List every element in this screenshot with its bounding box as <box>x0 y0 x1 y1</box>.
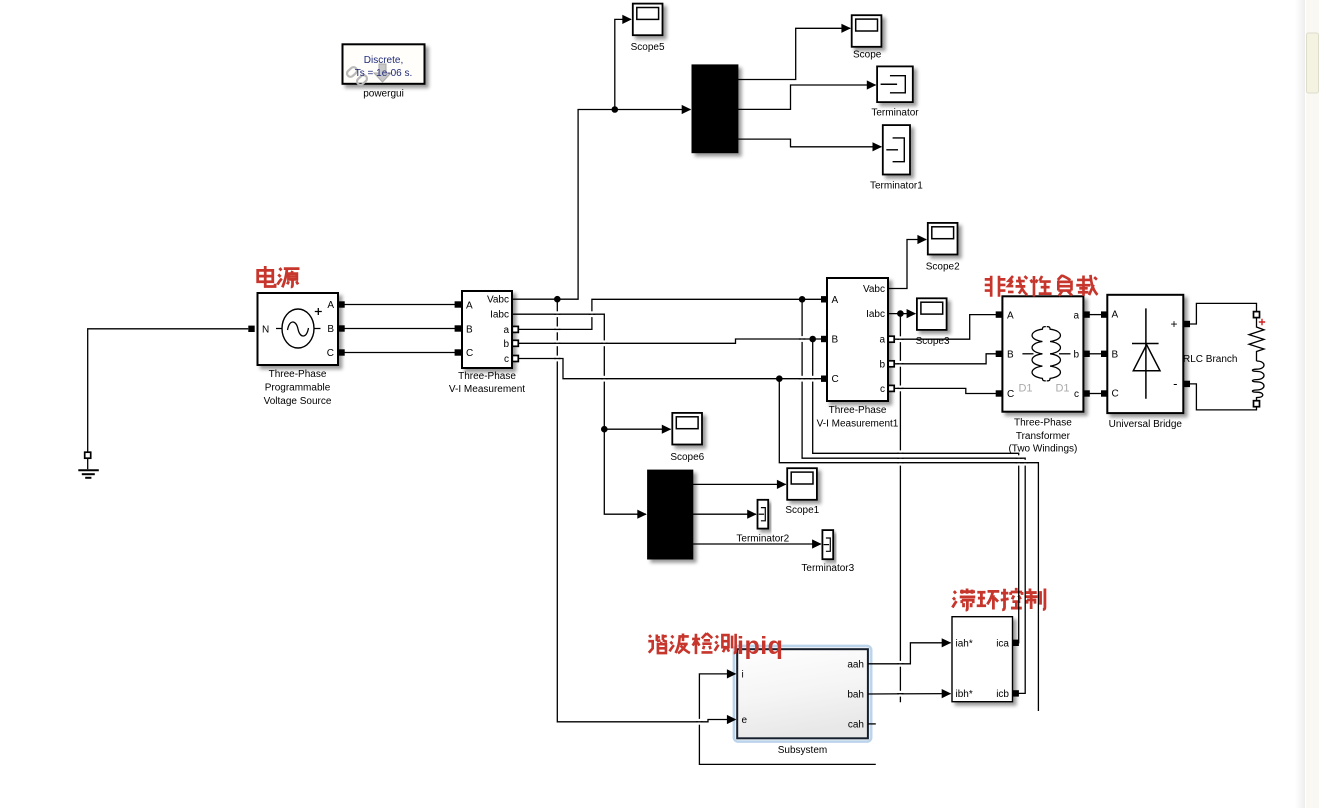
svg-text:c: c <box>880 384 885 395</box>
svg-text:ipiq: ipiq <box>737 632 783 660</box>
wire aah to iah* <box>868 643 951 664</box>
annotation 滞环控制 (hysteresis control) <box>952 588 1044 610</box>
wire VIM1 Iabc to Scope3 <box>888 313 915 315</box>
voltage source: Three-Phase Programmable Voltage Source <box>258 293 339 407</box>
svg-text:icb: icb <box>996 689 1009 700</box>
powergui block <box>343 44 425 99</box>
wire bridge + to RLC top <box>1184 303 1257 324</box>
demux black block top <box>692 65 738 153</box>
svg-text:c: c <box>504 354 509 365</box>
wire source C to VIM C <box>344 352 455 354</box>
junction phase-b line <box>809 336 816 343</box>
svg-text:b: b <box>503 339 509 350</box>
svg-text:a: a <box>879 335 885 346</box>
terminator Terminator2 <box>736 500 789 545</box>
svg-text:A: A <box>1007 310 1014 321</box>
svg-text:Terminator: Terminator <box>871 107 919 118</box>
wire bah to ibh* <box>868 693 951 695</box>
svg-text:Vabc: Vabc <box>487 295 509 306</box>
svg-text:Universal Bridge: Universal Bridge <box>1109 419 1183 430</box>
svg-text:B: B <box>1112 350 1119 361</box>
wire transformer c to bridge C <box>1087 393 1101 395</box>
junction Iabc1 branch down <box>897 310 904 317</box>
svg-text:+: + <box>1170 317 1177 331</box>
svg-text:-: - <box>1173 376 1177 391</box>
svg-text:C: C <box>327 348 334 359</box>
svg-text:Terminator2: Terminator2 <box>736 533 789 544</box>
block Three-Phase V-I Measurement1 <box>817 278 899 429</box>
svg-text:A: A <box>466 300 473 311</box>
wire VIM c to VIM1 C <box>512 359 822 379</box>
scope Scope6 <box>670 413 704 463</box>
svg-text:N: N <box>262 324 269 335</box>
scope Scope1 <box>785 468 819 516</box>
wire demux2 out1 to Scope1 <box>693 483 786 485</box>
scrollbar track <box>1295 0 1305 808</box>
wire VIM1 c to transformer C <box>891 388 996 393</box>
svg-text:Voltage Source: Voltage Source <box>264 396 332 407</box>
svg-text:a: a <box>1073 310 1079 321</box>
wire VIM Iabc down <box>512 314 646 514</box>
wire VIM1 Iabc dangling down <box>899 314 901 703</box>
svg-text:A: A <box>327 300 334 311</box>
scope Scope5 <box>631 4 665 54</box>
wire VIM1 Vabc to Scope2 <box>888 240 926 289</box>
svg-text:Three-Phase: Three-Phase <box>269 369 327 380</box>
demux black block middle <box>648 470 693 559</box>
wire VIM1 b to transformer B <box>891 354 996 364</box>
scope Scope <box>852 15 882 61</box>
svg-text:Terminator3: Terminator3 <box>801 563 854 574</box>
ground <box>78 458 99 478</box>
subsystem (harmonic detection ipiq) <box>733 645 873 756</box>
svg-text:Discrete,: Discrete, <box>364 55 403 66</box>
junction phase-a line <box>799 296 806 303</box>
svg-text:Three-Phase: Three-Phase <box>1014 418 1072 429</box>
svg-text:Terminator1: Terminator1 <box>870 180 923 191</box>
wire transformer b to bridge B <box>1087 353 1101 355</box>
wire demux1 out2 to Terminator <box>738 85 876 109</box>
hysteresis control block <box>952 617 1013 702</box>
svg-text:V-I Measurement: V-I Measurement <box>449 384 525 395</box>
svg-text:Scope3: Scope3 <box>916 336 950 347</box>
wire VIM Vabc to top demux <box>512 110 691 300</box>
svg-text:A: A <box>1112 310 1119 321</box>
svg-text:Vabc: Vabc <box>863 284 885 295</box>
port squares <box>248 296 1190 697</box>
junction phase-c line <box>776 375 783 382</box>
junction Vabc branch to subsystem e <box>554 296 561 303</box>
svg-text:Subsystem: Subsystem <box>778 745 827 756</box>
terminator Terminator3 <box>801 530 854 574</box>
svg-text:bah: bah <box>847 690 864 701</box>
wire transformer a to bridge A <box>1087 314 1101 316</box>
svg-text:Iabc: Iabc <box>866 309 885 320</box>
svg-text:Scope5: Scope5 <box>631 42 665 53</box>
wire VIM1 a to transformer A <box>891 315 996 340</box>
wire cah stub <box>868 723 876 725</box>
svg-text:powergui: powergui <box>363 89 404 100</box>
svg-text:B: B <box>1007 349 1014 360</box>
wire crossing gaps <box>554 311 1028 724</box>
svg-text:Three-Phase: Three-Phase <box>458 371 516 382</box>
svg-text:B: B <box>832 335 839 346</box>
svg-text:Programmable: Programmable <box>265 383 331 394</box>
annotation 非线性负载 (nonlinear load) <box>985 275 1098 297</box>
svg-text:b: b <box>879 359 885 370</box>
wire branch phase-b to ica <box>813 339 1019 643</box>
hollow port squares <box>85 312 1260 459</box>
arrowheads <box>622 15 951 724</box>
wire demux1 out3 to Terminator1 <box>738 139 881 147</box>
wire source A to VIM A <box>344 304 455 306</box>
svg-text:V-I Measurement1: V-I Measurement1 <box>817 418 899 429</box>
svg-text:C: C <box>1112 389 1119 400</box>
svg-text:ibh*: ibh* <box>956 689 973 700</box>
wire i input feed <box>699 674 875 765</box>
wire bridge - to RLC bottom <box>1184 384 1257 410</box>
svg-text:aah: aah <box>847 659 864 670</box>
wire demux2 out2 to Terminator2 <box>693 513 756 515</box>
junction branch to Scope5 <box>612 106 619 113</box>
scope Scope3 <box>916 298 950 347</box>
wire source B to VIM B <box>344 328 455 330</box>
svg-text:a: a <box>503 325 509 336</box>
wire branch phase-c dangling <box>779 379 1038 711</box>
svg-text:cah: cah <box>848 719 864 730</box>
block Three-Phase V-I Measurement <box>449 291 525 395</box>
svg-text:iah*: iah* <box>956 638 973 649</box>
wire demux1 out1 to Scope <box>738 28 850 79</box>
wire branch phase-a to icb <box>802 299 1025 693</box>
junction branch to Scope6 <box>601 426 608 433</box>
scrollbar thumb <box>1307 33 1319 93</box>
svg-text:Transformer: Transformer <box>1016 431 1071 442</box>
svg-text:D1: D1 <box>1018 383 1032 395</box>
wire VIM b to VIM1 B <box>512 339 822 343</box>
svg-text:C: C <box>466 348 473 359</box>
wire VIM a to VIM1 A <box>512 299 822 329</box>
svg-text:Ts = 1e-06 s.: Ts = 1e-06 s. <box>355 68 413 79</box>
wire branch to Scope5 <box>615 19 631 109</box>
wire demux2 out3 to Terminator3 <box>693 543 821 545</box>
svg-text:b: b <box>1073 349 1079 360</box>
svg-text:B: B <box>327 324 334 335</box>
svg-text:e: e <box>742 715 748 726</box>
wire branch Vabc down to subsystem e <box>557 299 735 722</box>
block Three-Phase Transformer (Two Windings) <box>1002 296 1083 454</box>
svg-text:Iabc: Iabc <box>490 310 509 321</box>
wire ground to N input <box>88 329 249 455</box>
wire branch to Scope6 <box>604 428 670 430</box>
svg-text:c: c <box>1074 389 1079 400</box>
svg-text:RLC Branch: RLC Branch <box>1183 354 1237 365</box>
svg-text:D1: D1 <box>1055 383 1069 395</box>
svg-text:Scope6: Scope6 <box>670 452 704 463</box>
series RLC branch <box>1183 315 1265 401</box>
scope Scope2 <box>926 223 960 273</box>
terminator Terminator1 <box>870 125 923 191</box>
svg-text:i: i <box>742 669 744 680</box>
annotation 谐波检测 (harmonic detection) <box>648 633 735 654</box>
svg-text:C: C <box>1007 389 1014 400</box>
svg-text:C: C <box>832 374 839 385</box>
svg-text:B: B <box>466 325 473 336</box>
svg-text:Scope2: Scope2 <box>926 262 960 273</box>
svg-text:Scope: Scope <box>853 50 882 61</box>
svg-text:Three-Phase: Three-Phase <box>829 405 887 416</box>
annotation 电源 (power source) <box>258 266 300 287</box>
svg-text:Scope1: Scope1 <box>785 505 819 516</box>
block Universal Bridge <box>1107 295 1183 430</box>
svg-text:ica: ica <box>996 638 1009 649</box>
terminator Terminator <box>871 66 919 118</box>
svg-text:A: A <box>832 295 839 306</box>
